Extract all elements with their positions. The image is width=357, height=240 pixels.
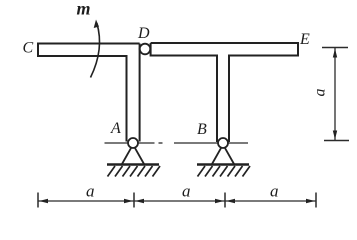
svg-text:a: a	[312, 89, 329, 97]
right dimension arrowheads	[333, 49, 337, 140]
arrowheads segment 1	[39, 199, 133, 203]
pin B	[218, 138, 228, 148]
bottom dimension tick at C	[37, 193, 39, 208]
right dimension line vertical	[334, 48, 336, 141]
svg-text:a: a	[86, 182, 95, 201]
right dimension bottom tick	[324, 140, 349, 142]
right dimension top tick	[322, 47, 348, 49]
center line through pins A and B (dash-dot)	[105, 142, 249, 144]
svg-text:A: A	[110, 120, 121, 137]
svg-text:E: E	[299, 31, 310, 48]
arrowheads segment 2	[135, 199, 224, 203]
bottom dimension line	[38, 200, 316, 202]
support triangle A	[122, 147, 144, 164]
svg-text:B: B	[197, 121, 207, 138]
pin A	[128, 138, 138, 148]
ground hatching A	[108, 166, 161, 177]
hinge D	[140, 44, 151, 55]
svg-text:a: a	[182, 182, 191, 201]
arrowheads segment 3	[226, 199, 315, 203]
moment arrowhead	[94, 20, 99, 29]
column B with beam D-E outline	[151, 43, 298, 142]
bottom dimension tick at A	[133, 193, 135, 208]
ground line A	[107, 163, 159, 165]
svg-text:C: C	[23, 40, 34, 57]
bottom dimension tick at B	[224, 193, 226, 208]
svg-text:a: a	[270, 182, 279, 201]
bottom dimension tick at E	[315, 193, 317, 208]
moment arrow m (curved arc)	[91, 23, 100, 78]
ground line B	[197, 163, 249, 165]
support triangle B	[212, 147, 234, 164]
svg-text:D: D	[137, 25, 150, 42]
svg-text:m: m	[77, 0, 91, 19]
ground hatching B	[198, 166, 251, 177]
beam C-D with column A outline	[38, 44, 140, 142]
